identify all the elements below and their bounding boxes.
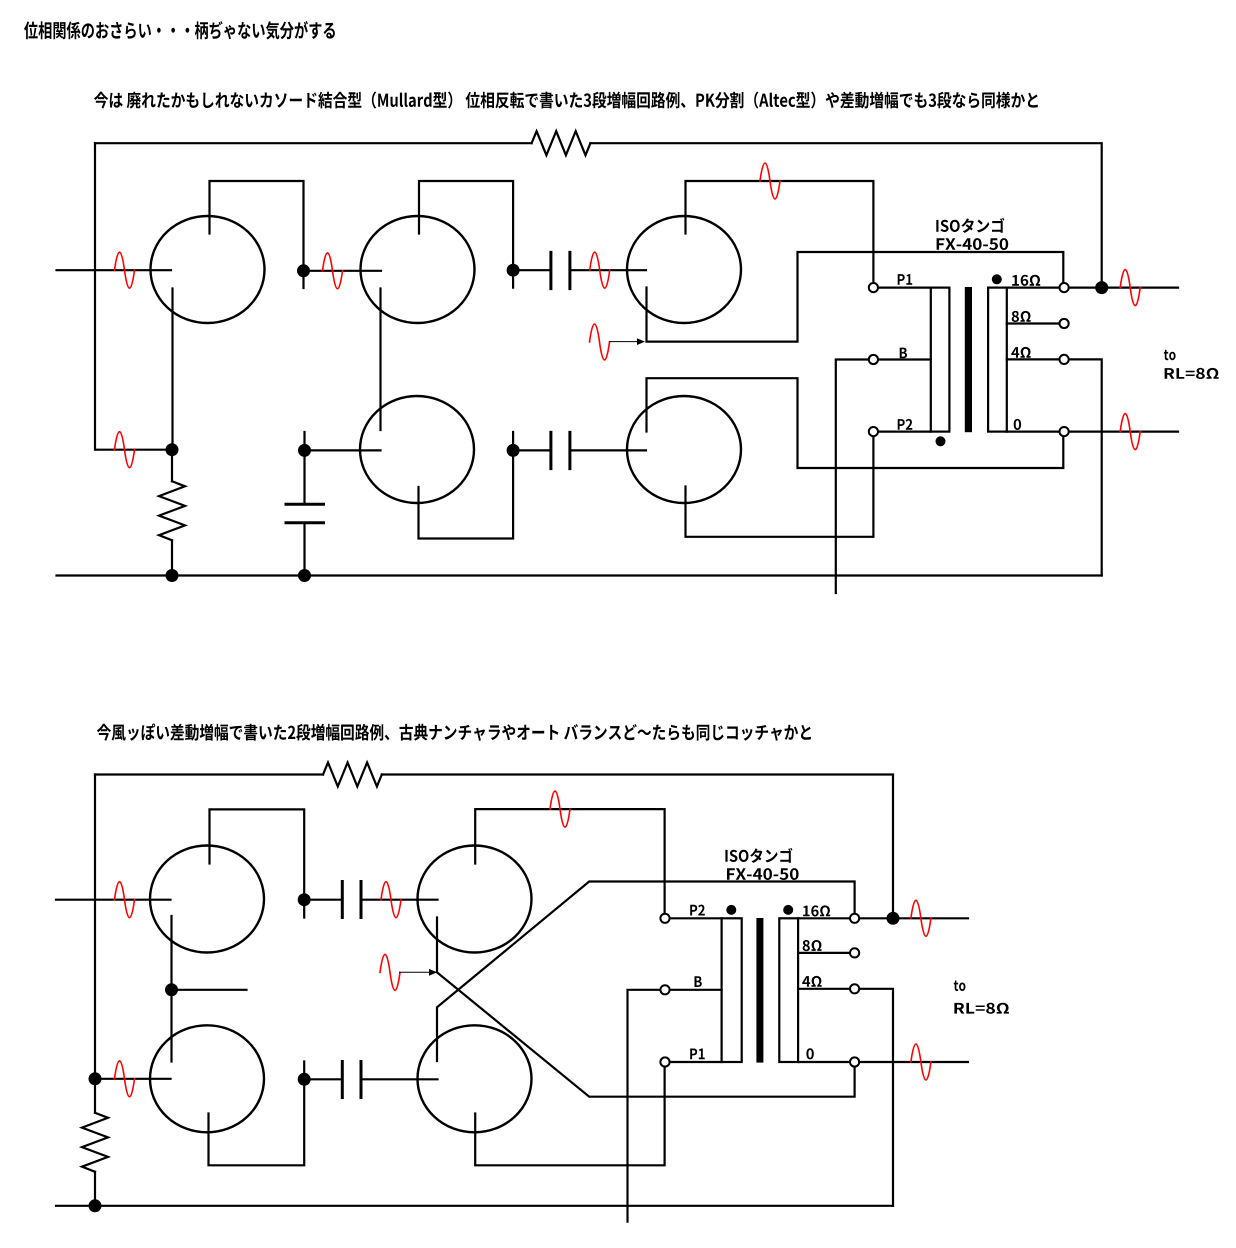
wire V7 grid bbox=[95, 1078, 171, 1080]
wire output 0 bbox=[1069, 431, 1178, 433]
label 8ohm bbox=[1012, 311, 1031, 322]
label P1 T2 bbox=[690, 1049, 705, 1060]
capacitor C6 coupling bbox=[304, 899, 437, 901]
wire 4ohm to ground bbox=[1069, 359, 1101, 575]
resistor R1 feedback bbox=[532, 131, 591, 155]
capacitor C7 coupling bbox=[304, 1078, 437, 1080]
capacitor C1 grid bypass bbox=[303, 432, 305, 576]
wire P1 to primary 2 bbox=[671, 1061, 722, 1063]
label 0 T2 bbox=[806, 1048, 813, 1059]
wire output 0 2 bbox=[860, 1061, 968, 1063]
wire V5 cathode to 0 tap bbox=[647, 378, 1064, 468]
core T1 bbox=[965, 287, 972, 432]
wire output 16ohm bbox=[1069, 287, 1178, 289]
tube V6 bbox=[150, 846, 264, 953]
wire P2 to primary 2 bbox=[671, 917, 722, 919]
sine annotation input bbox=[115, 252, 135, 288]
node cathode tail bbox=[165, 983, 178, 996]
wire 8ohm tap 2 bbox=[798, 952, 849, 954]
wire 16ohm tap 2 bbox=[798, 917, 849, 919]
wire output 16ohm 2 bbox=[860, 917, 968, 919]
node V7 grid bbox=[89, 1072, 102, 1085]
wire V9 plate to P1 bbox=[475, 1068, 664, 1166]
wire 4ohm to ground 2 bbox=[860, 989, 893, 1206]
tube V4 bbox=[627, 216, 741, 323]
wire V1 cathode bbox=[171, 289, 173, 450]
label 4ohm T2 bbox=[802, 976, 821, 987]
label 16ohm bbox=[1012, 275, 1040, 286]
wire feedback return to cathode bbox=[95, 143, 172, 450]
wire tail stub bbox=[172, 989, 247, 991]
secondary winding T1 bbox=[988, 288, 1007, 432]
annotation arrow 2 bbox=[400, 971, 430, 973]
primary winding T1 bbox=[931, 288, 950, 432]
wire V8 cathode to 0 tap bbox=[437, 918, 855, 1097]
label B bbox=[900, 348, 907, 359]
sine annotation V4 plate bbox=[760, 163, 780, 199]
sine annotation V8 plate bbox=[550, 791, 570, 827]
sine annotation output hot 2 bbox=[911, 900, 931, 936]
sine annotation feedback 2 bbox=[115, 1061, 135, 1097]
terminal 0 T2 bbox=[850, 1057, 859, 1066]
node V2 grid bbox=[297, 264, 310, 277]
terminal 16ohm bbox=[1060, 283, 1069, 292]
label to RL 2 bbox=[954, 981, 966, 992]
terminal 8ohm T2 bbox=[850, 948, 859, 957]
wire input bbox=[57, 269, 172, 271]
terminal B T2 bbox=[660, 985, 669, 994]
label B T2 bbox=[695, 976, 702, 987]
node C7 input bbox=[298, 1073, 311, 1086]
sine annotation after C2 bbox=[590, 252, 610, 288]
wire P2 to primary bbox=[879, 431, 931, 433]
node output 16ohm bbox=[1095, 281, 1108, 294]
wire V2 V3 cathodes bbox=[379, 289, 381, 431]
phase dot secondary T1 bbox=[992, 274, 1002, 284]
node output 16ohm 2 bbox=[887, 912, 900, 925]
sine annotation output hot bbox=[1120, 270, 1140, 306]
tube V9 bbox=[418, 1025, 532, 1132]
node C6 input bbox=[298, 893, 311, 906]
wire V8 plate to P2 bbox=[475, 809, 664, 913]
wire B supply bbox=[836, 360, 868, 594]
capacitor C3 coupling bbox=[513, 449, 646, 451]
terminal 4ohm bbox=[1060, 355, 1069, 364]
wire 4ohm tap bbox=[1007, 358, 1059, 360]
terminal P1 T2 bbox=[660, 1057, 669, 1066]
wire V3 plate to C3 bbox=[419, 432, 514, 539]
wire feedback left bbox=[95, 142, 532, 144]
wire B supply 2 bbox=[628, 990, 660, 1222]
wire V7 plate to coupling node bbox=[209, 1062, 305, 1166]
label 4ohm bbox=[1011, 347, 1030, 358]
tube V7 bbox=[150, 1025, 264, 1132]
caption circuit 2 bbox=[97, 724, 811, 741]
wire V4 cathode to 16ohm tap bbox=[647, 252, 1064, 342]
wire 16ohm tap bbox=[1007, 287, 1059, 289]
node R4 ground bbox=[89, 1199, 102, 1212]
terminal P1 bbox=[869, 283, 878, 292]
wire V6 V7 cathodes bbox=[170, 916, 172, 1062]
wire ground bus bbox=[57, 574, 1102, 576]
core T2 bbox=[756, 918, 763, 1063]
phase dot primary T2 bbox=[726, 905, 736, 915]
terminal 4ohm T2 bbox=[850, 984, 859, 993]
tube V3 bbox=[360, 396, 474, 503]
wire V2 plate to C2 bbox=[419, 181, 513, 288]
phase dot secondary T2 bbox=[783, 905, 793, 915]
tube V2 bbox=[361, 216, 475, 323]
transformer T1 label bbox=[936, 218, 1004, 233]
sine annotation after C6 bbox=[381, 882, 401, 918]
transformer T2 label bbox=[725, 848, 792, 863]
terminal 16ohm T2 bbox=[850, 914, 859, 923]
sine annotation input 2 bbox=[115, 882, 135, 918]
wire V9 cathode to 16ohm tap bbox=[437, 882, 855, 1062]
label to RL bbox=[1164, 350, 1176, 361]
wire V4 plate to P1 bbox=[686, 181, 874, 282]
label P1 bbox=[898, 274, 913, 285]
wire input 2 bbox=[56, 899, 171, 901]
terminal 8ohm bbox=[1060, 319, 1069, 328]
node C2 input bbox=[507, 264, 520, 277]
node cathode feedback bbox=[166, 443, 179, 456]
wire V1 plate to V2 grid bbox=[210, 181, 382, 288]
label 16ohm T2 bbox=[803, 905, 830, 916]
node C3 input bbox=[507, 444, 520, 457]
wire feedback right bbox=[590, 143, 1101, 281]
label 0 bbox=[1014, 419, 1021, 430]
wire 4ohm tap 2 bbox=[798, 988, 849, 990]
wire V3 grid bbox=[305, 449, 381, 451]
terminal P2 bbox=[869, 427, 878, 436]
wire ground bus 2 bbox=[56, 1205, 893, 1207]
sine annotation output cold 2 bbox=[911, 1044, 931, 1080]
wire feedback return 2 bbox=[94, 775, 96, 1079]
sine annotation V8 cathode bbox=[380, 954, 400, 990]
node V3 grid bbox=[298, 444, 311, 457]
node C1 ground bbox=[298, 569, 311, 582]
resistor R2 cathode bbox=[171, 450, 173, 576]
wire B to primary bbox=[879, 358, 931, 360]
phase dot primary T1 bbox=[936, 436, 946, 446]
wire feedback top 2 left bbox=[95, 773, 323, 775]
wire P1 to primary bbox=[879, 287, 931, 289]
title text bbox=[24, 21, 335, 40]
annotation arrow 1 bbox=[610, 341, 638, 343]
primary winding T2 bbox=[722, 918, 742, 1062]
resistor R4 tail bbox=[94, 1079, 96, 1206]
label P2 bbox=[898, 419, 913, 430]
tube V8 bbox=[418, 846, 532, 953]
resistor R3 feedback bbox=[323, 763, 382, 787]
capacitor C2 coupling bbox=[513, 269, 646, 271]
terminal B bbox=[869, 355, 878, 364]
wire 8ohm tap bbox=[1007, 322, 1059, 324]
wire 0 tap 2 bbox=[798, 1061, 849, 1063]
sine annotation V4 cathode bbox=[590, 324, 610, 360]
tube V5 bbox=[627, 396, 741, 503]
tube V1 bbox=[151, 216, 265, 323]
caption circuit 1 bbox=[94, 92, 1038, 109]
sine annotation output cold bbox=[1120, 414, 1140, 450]
label 8ohm T2 bbox=[803, 940, 822, 951]
terminal P2 T2 bbox=[660, 914, 669, 923]
sine annotation feedback bbox=[115, 432, 135, 468]
terminal 0 bbox=[1060, 427, 1069, 436]
sine annotation V1 output bbox=[323, 253, 343, 289]
wire B to primary 2 bbox=[671, 989, 722, 991]
node R2 ground bbox=[166, 569, 179, 582]
label P2 T2 bbox=[690, 905, 705, 916]
secondary winding T2 bbox=[779, 918, 798, 1062]
wire V5 plate to P2 bbox=[686, 437, 874, 537]
wire feedback top 2 right bbox=[382, 775, 893, 913]
wire 0 tap bbox=[1007, 431, 1059, 433]
wire V6 plate to coupling node bbox=[210, 809, 305, 917]
